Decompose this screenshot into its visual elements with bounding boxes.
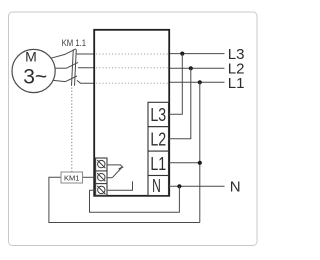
terminal box N xyxy=(148,176,169,196)
screw terminal column xyxy=(96,158,107,195)
motor M1 circle xyxy=(12,49,55,92)
wire motor phase 1 (top) xyxy=(51,54,65,58)
contact blade pole 3 xyxy=(66,76,78,82)
svg-text:N: N xyxy=(152,176,161,196)
node L1 junction xyxy=(198,80,202,84)
svg-text:L1: L1 xyxy=(150,154,166,174)
node L3 junction xyxy=(180,52,184,56)
node L2 junction xyxy=(189,66,193,70)
terminal box L1 xyxy=(148,151,169,175)
contactor KM1.1 linkage bar 1 xyxy=(72,49,74,85)
wire coil to common screw xyxy=(83,176,96,178)
svg-text:M: M xyxy=(25,49,37,65)
dashed linkage to coil xyxy=(71,88,73,172)
svg-text:3~: 3~ xyxy=(23,66,47,89)
screw 11 xyxy=(98,160,105,167)
wire L3 dropper xyxy=(169,54,182,115)
contact blade pole 2 xyxy=(67,62,79,68)
svg-text:KM1: KM1 xyxy=(64,173,79,182)
contact blade pole 1 xyxy=(65,49,77,55)
wire motor phase 3 (bottom) xyxy=(53,80,65,81)
node L1 terminal junction xyxy=(198,161,202,165)
relay contact NC wire xyxy=(107,165,123,168)
screw 13 xyxy=(98,186,105,193)
terminal box L2 xyxy=(148,127,169,151)
wire L1 terminal link xyxy=(169,162,200,164)
wire rail B L1 to coil xyxy=(49,177,200,222)
line L3 xyxy=(170,53,225,55)
terminal box L3 xyxy=(148,102,169,126)
node N junction xyxy=(177,184,181,188)
wire L2 dropper xyxy=(169,68,191,138)
screw 12 xyxy=(98,174,105,181)
relay contact blade xyxy=(112,167,122,178)
svg-text:KM 1.1: KM 1.1 xyxy=(62,38,87,48)
wire pole1 to box xyxy=(77,53,95,55)
relay contact common wire xyxy=(107,177,112,179)
svg-text:L2: L2 xyxy=(150,130,166,150)
svg-text:L1: L1 xyxy=(228,75,245,92)
dotted internal row L2 xyxy=(96,67,168,69)
relay contact NO wire xyxy=(107,181,133,190)
wire motor phase 2 (middle) xyxy=(55,67,66,69)
wire pole3 to box xyxy=(77,80,95,83)
line L2 xyxy=(170,67,225,69)
wire N line xyxy=(169,185,225,187)
contactor KM1.1 linkage bar 2 xyxy=(75,49,77,85)
wire L1 dropper long xyxy=(199,82,201,222)
wire N branch to rail A xyxy=(90,186,180,212)
svg-text:N: N xyxy=(230,178,241,195)
dotted internal row L3 xyxy=(96,53,168,55)
contactor coil KM1 xyxy=(61,172,83,183)
svg-text:L3: L3 xyxy=(150,105,166,125)
wire pole2 to box xyxy=(78,67,95,69)
dotted internal row L1 xyxy=(96,82,168,84)
frame border xyxy=(9,12,258,246)
line L1 xyxy=(170,81,225,83)
device box U1 xyxy=(94,30,169,196)
